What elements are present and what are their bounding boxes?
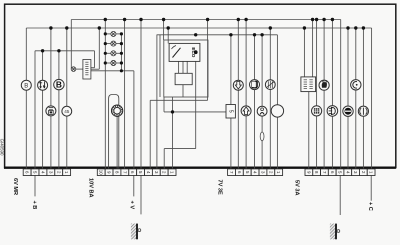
svg-text:+ C: + C: [367, 202, 373, 211]
svg-text:7V 3E: 7V 3E: [216, 180, 222, 196]
svg-text:45: 45: [64, 109, 70, 114]
svg-text:B: B: [56, 80, 62, 90]
svg-text:5: 5: [227, 110, 233, 113]
svg-text:+ B: + B: [31, 201, 37, 210]
svg-text:+ V: + V: [128, 201, 134, 210]
svg-text:5V 3A: 5V 3A: [293, 180, 299, 196]
svg-text:6V MR: 6V MR: [12, 178, 18, 195]
svg-text:10V BA: 10V BA: [87, 178, 93, 198]
svg-text:GI40590: GI40590: [0, 139, 5, 156]
svg-text:10: 10: [99, 170, 104, 175]
svg-text:B: B: [24, 83, 28, 89]
